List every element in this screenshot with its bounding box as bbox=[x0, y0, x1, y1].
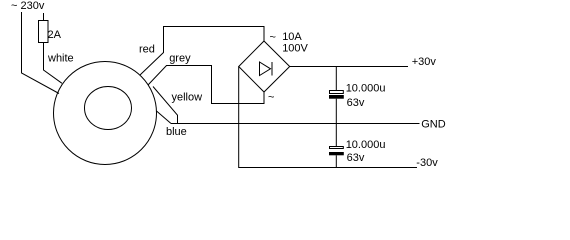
svg-text:~ 230v: ~ 230v bbox=[11, 0, 45, 12]
svg-text:10.000u: 10.000u bbox=[346, 83, 386, 95]
svg-text:~: ~ bbox=[268, 92, 274, 104]
svg-text:2A: 2A bbox=[48, 29, 62, 41]
svg-text:10A: 10A bbox=[282, 31, 302, 43]
svg-text:~: ~ bbox=[270, 31, 276, 43]
svg-text:grey: grey bbox=[169, 53, 191, 65]
svg-text:63v: 63v bbox=[347, 97, 365, 109]
svg-text:yellow: yellow bbox=[172, 92, 203, 104]
svg-text:100V: 100V bbox=[282, 43, 308, 55]
svg-text:-30v: -30v bbox=[416, 157, 438, 169]
svg-text:10.000u: 10.000u bbox=[346, 139, 386, 151]
svg-text:white: white bbox=[47, 52, 74, 64]
svg-text:GND: GND bbox=[421, 119, 446, 131]
svg-text:+30v: +30v bbox=[412, 56, 437, 68]
svg-text:blue: blue bbox=[166, 126, 187, 138]
svg-text:63v: 63v bbox=[347, 152, 365, 164]
svg-text:red: red bbox=[139, 44, 155, 56]
